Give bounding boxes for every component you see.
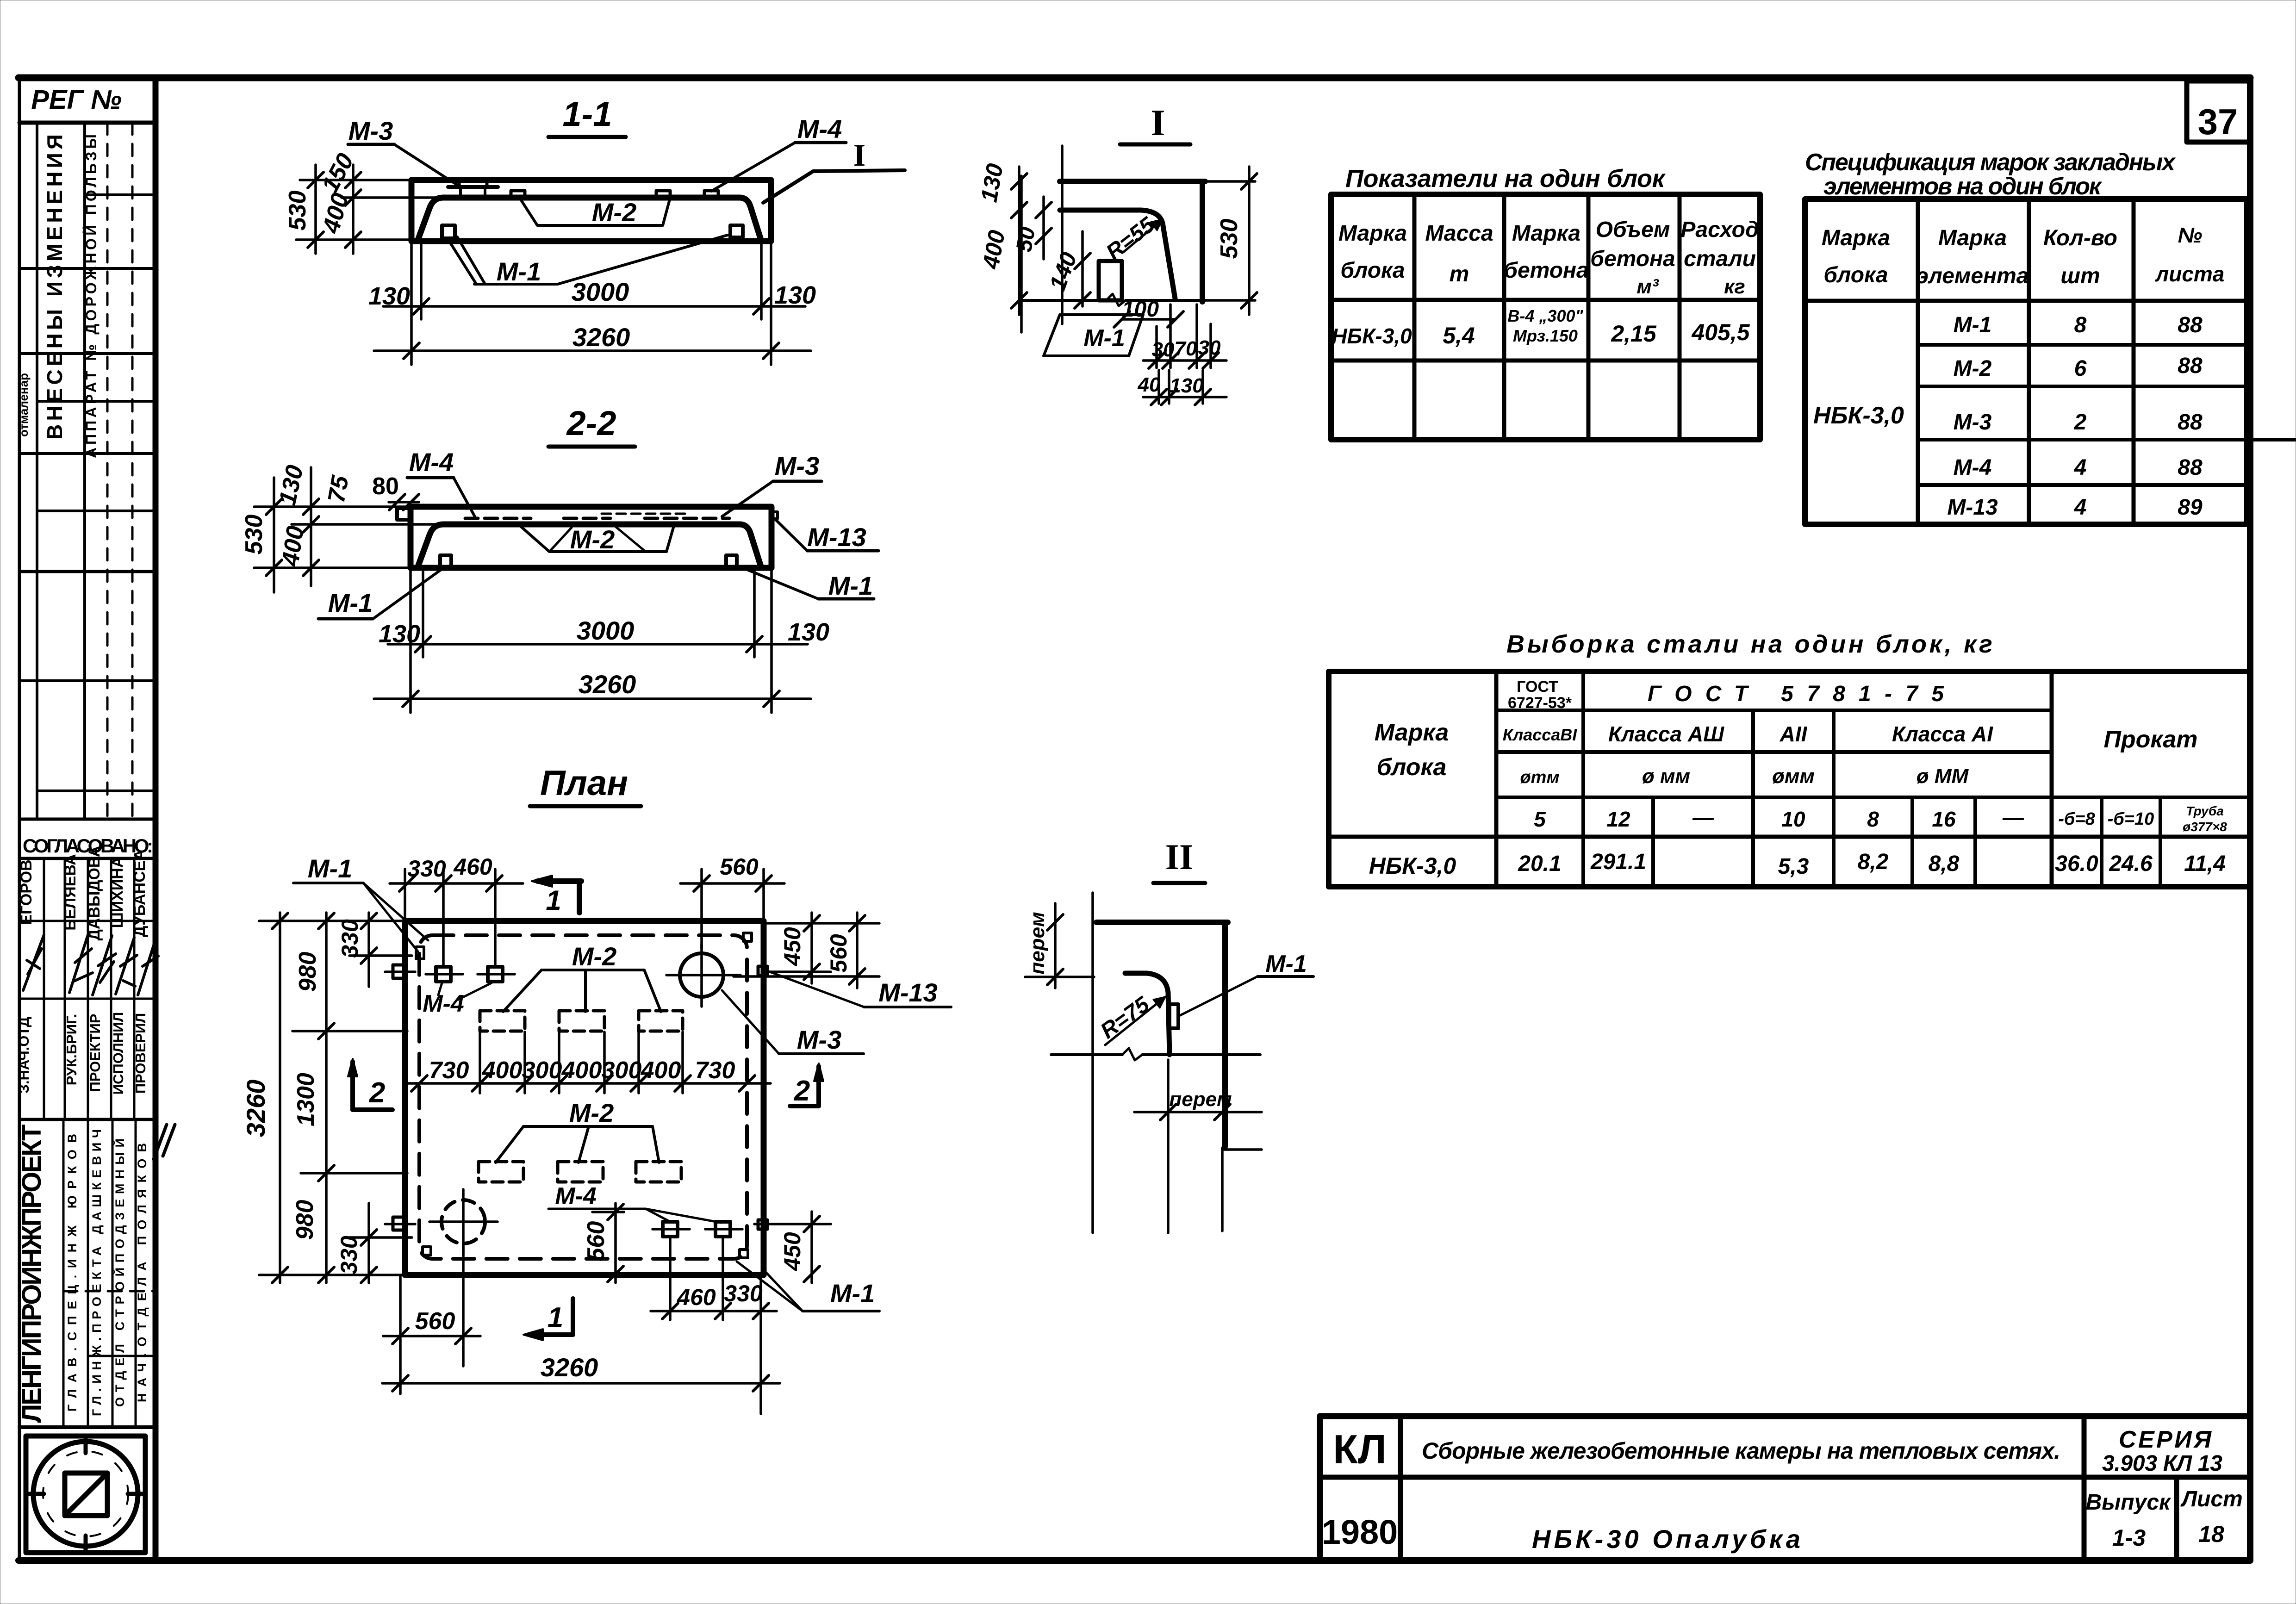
- svg-text:т: т: [1450, 262, 1469, 286]
- plate M-2 bottom row 2: [558, 1162, 603, 1182]
- corner hook M-1 bottom-left: [423, 1247, 431, 1255]
- svg-text:130: 130: [379, 620, 420, 648]
- svg-text:блока: блока: [1377, 754, 1447, 781]
- svg-text:ДАВЫДОВА: ДАВЫДОВА: [86, 846, 103, 941]
- svg-text:400: 400: [277, 524, 309, 568]
- svg-text:291.1: 291.1: [1590, 850, 1646, 874]
- anchor square M-4 top 1: [436, 967, 451, 982]
- svg-text:листа: листа: [2155, 262, 2225, 286]
- SECTION11: [284, 95, 905, 365]
- plate M-2 top row 3: [639, 1011, 683, 1031]
- opening circle top-right: [680, 953, 723, 997]
- cavity inner outline: [417, 524, 761, 568]
- interior dim row 730/400/300/400/300/400/730: [407, 1082, 771, 1085]
- svg-text:перем: перем: [1026, 912, 1049, 974]
- svg-text:НАЧ.ОТДЕЛА ПОЛЯКОВ: НАЧ.ОТДЕЛА ПОЛЯКОВ: [135, 1143, 149, 1402]
- svg-text:24.6: 24.6: [2109, 852, 2153, 876]
- svg-text:88: 88: [2178, 410, 2203, 435]
- svg-text:3260: 3260: [572, 323, 630, 352]
- svg-text:400: 400: [482, 1057, 523, 1084]
- title block outline: [1320, 1413, 2250, 1419]
- dims 30 70 30: [1155, 326, 1158, 368]
- svg-text:88: 88: [2178, 455, 2203, 480]
- plate parallelogram M-1: [1044, 315, 1143, 356]
- section mark 2 right: [816, 1066, 821, 1106]
- svg-text:М-1: М-1: [1265, 951, 1307, 977]
- anchor square M-4 bottom 1: [663, 1222, 678, 1237]
- svg-text:М-2: М-2: [592, 198, 636, 227]
- svg-text:элемента: элемента: [1916, 264, 2029, 288]
- svg-text:I: I: [853, 137, 865, 173]
- left extension lines: [300, 179, 411, 181]
- svg-text:5,3: 5,3: [1778, 854, 1809, 879]
- svg-text:М-3: М-3: [348, 116, 393, 145]
- changes table verticals: [36, 123, 38, 819]
- bottom dim 560: [399, 1275, 402, 1394]
- cavity inner outline: [417, 198, 761, 241]
- right outer edge: [1200, 181, 1205, 302]
- svg-text:М-2: М-2: [572, 942, 616, 971]
- svg-text:3260: 3260: [579, 670, 636, 699]
- left extension lines: [259, 920, 405, 922]
- changes table row lines: [85, 193, 156, 196]
- dim 530 vertical: [273, 478, 275, 592]
- svg-text:16: 16: [1932, 807, 1956, 831]
- svg-text:460: 460: [453, 854, 492, 880]
- svg-text:Марка: Марка: [1822, 226, 1890, 250]
- DETAIL1: [976, 103, 1257, 405]
- svg-text:НБК-3,0: НБК-3,0: [1369, 853, 1456, 879]
- right outer edge: [1222, 922, 1228, 1147]
- svg-text:2-2: 2-2: [566, 404, 616, 442]
- svg-text:М-3: М-3: [775, 451, 819, 480]
- svg-text:Марка: Марка: [1375, 719, 1449, 746]
- svg-text:100: 100: [1122, 297, 1159, 322]
- svg-text:Спецификация марок закладных: Спецификация марок закладных: [1805, 149, 2176, 176]
- svg-text:М-1: М-1: [1954, 313, 1992, 337]
- svg-text:88: 88: [2178, 313, 2203, 337]
- dim 3260: [409, 568, 412, 713]
- svg-text:Марка: Марка: [1512, 221, 1580, 246]
- svg-text:5,4: 5,4: [1443, 323, 1475, 348]
- svg-text:М-4: М-4: [797, 114, 842, 143]
- svg-text:м³: м³: [1636, 275, 1659, 298]
- svg-text:4: 4: [2074, 455, 2087, 480]
- svg-text:4: 4: [2074, 495, 2087, 520]
- svg-text:8,2: 8,2: [1858, 850, 1889, 874]
- svg-text:1-1: 1-1: [563, 95, 612, 133]
- inner corner with radius R75: [1125, 973, 1170, 1055]
- svg-text:М-1: М-1: [328, 588, 373, 617]
- svg-text:300: 300: [522, 1057, 562, 1084]
- embedded part M-3 assembly on top: [448, 185, 498, 189]
- right border: [2247, 78, 2253, 1560]
- svg-text:Масса: Масса: [1425, 221, 1493, 246]
- svg-text:II: II: [1165, 837, 1194, 877]
- svg-text:2,15: 2,15: [1611, 321, 1657, 347]
- corner hook M-1 top-right: [743, 933, 752, 941]
- svg-text:400: 400: [317, 190, 354, 236]
- svg-text:460: 460: [677, 1284, 716, 1310]
- svg-text:М-4: М-4: [1954, 455, 1992, 480]
- svg-text:2: 2: [2074, 410, 2087, 435]
- svg-text:бетона: бетона: [1590, 247, 1675, 271]
- svg-text:Марка: Марка: [1338, 221, 1407, 246]
- svg-text:М-3: М-3: [797, 1025, 841, 1054]
- svg-text:Труба: Труба: [2186, 804, 2224, 818]
- dim 330 bottom-left: [367, 1203, 370, 1283]
- svg-text:3.903 КЛ 13: 3.903 КЛ 13: [2102, 1451, 2222, 1476]
- svg-text:№: №: [2178, 223, 2203, 247]
- svg-text:элементов на один блок: элементов на один блок: [1823, 173, 2103, 200]
- svg-text:М-2: М-2: [569, 1098, 614, 1127]
- svg-text:Прокат: Прокат: [2103, 726, 2197, 753]
- svg-text:ГОСТ 5781-75: ГОСТ 5781-75: [1648, 682, 1944, 706]
- svg-text:ВНЕСЕНЫ ИЗМЕНЕНИЯ: ВНЕСЕНЫ ИЗМЕНЕНИЯ: [43, 134, 67, 440]
- TITLEBLOCK: [1320, 1416, 2250, 1560]
- section mark 1 bottom with arrow: [530, 1332, 573, 1337]
- svg-text:перем: перем: [1169, 1088, 1232, 1111]
- dim chain 980/1300/980: [325, 913, 328, 1283]
- logo connector ticks: [84, 1436, 88, 1453]
- svg-text:1300: 1300: [292, 1073, 319, 1126]
- svg-text:бетона: бетона: [1504, 258, 1588, 283]
- dim 400 left: [1018, 222, 1020, 315]
- dim 140 hook: [1081, 231, 1084, 306]
- extension lines from plates: [479, 1032, 481, 1093]
- svg-text:М-13: М-13: [807, 522, 866, 552]
- svg-text:Расход: Расход: [1680, 218, 1759, 242]
- svg-text:6: 6: [2074, 356, 2087, 381]
- svg-text:530: 530: [1216, 219, 1243, 259]
- svg-text:ШИХИНА: ШИХИНА: [109, 857, 126, 928]
- table Specifikacia grid: [1805, 199, 2247, 524]
- svg-text:Класса АІ: Класса АІ: [1892, 722, 1993, 746]
- svg-text:ø377×8: ø377×8: [2183, 820, 2227, 834]
- svg-text:øмм: øмм: [1772, 765, 1815, 788]
- slab outer rect: [411, 180, 771, 241]
- svg-text:5: 5: [1534, 807, 1546, 831]
- svg-text:8: 8: [2074, 313, 2087, 337]
- dim 400/150 vertical: [352, 165, 355, 254]
- logo emblem circle: [33, 1442, 138, 1546]
- svg-text:М-2: М-2: [570, 525, 615, 554]
- svg-text:1: 1: [548, 1302, 563, 1334]
- lifting hook M-1 right: [726, 555, 737, 568]
- dim 3000 with 130 ends: [420, 241, 423, 319]
- svg-text:I: I: [1151, 103, 1165, 143]
- leader callout M-2: [518, 524, 674, 552]
- dim 450 top-right: [810, 913, 813, 983]
- svg-text:530: 530: [284, 191, 311, 231]
- svg-text:З.НАЧ.ОТД: З.НАЧ.ОТД: [16, 1017, 32, 1093]
- svg-text:1: 1: [546, 885, 561, 916]
- svg-text:400: 400: [641, 1057, 681, 1084]
- svg-text:330: 330: [407, 856, 446, 882]
- dim 450 bottom-right: [754, 1223, 831, 1225]
- svg-text:730: 730: [429, 1057, 469, 1084]
- svg-text:шт: шт: [2060, 264, 2100, 288]
- TABLES: [1329, 149, 2296, 887]
- svg-text:1980: 1980: [1322, 1513, 1398, 1551]
- svg-text:кг: кг: [1724, 275, 1745, 298]
- construction verticals: [1061, 146, 1064, 324]
- dim 560 top-right: [856, 913, 859, 988]
- edge hook M-13 right: [758, 966, 767, 976]
- svg-text:ДУБАНСЕА: ДУБАНСЕА: [131, 849, 149, 937]
- svg-text:блока: блока: [1340, 258, 1405, 283]
- svg-text:Выпуск: Выпуск: [2086, 1490, 2172, 1515]
- svg-text:89: 89: [2178, 495, 2203, 520]
- svg-text:80: 80: [372, 473, 399, 500]
- svg-text:88: 88: [2178, 354, 2203, 378]
- svg-text:НБК-3,0: НБК-3,0: [1332, 324, 1412, 348]
- svg-text:30: 30: [1152, 338, 1175, 361]
- svg-text:ЛЕНГИПРОИНЖПРОЕКТ: ЛЕНГИПРОИНЖПРОЕКТ: [17, 1125, 47, 1423]
- svg-text:М-3: М-3: [1954, 410, 1992, 435]
- svg-text:М-4: М-4: [423, 990, 464, 1017]
- svg-text:3000: 3000: [577, 616, 635, 645]
- edge hook right bottom: [758, 1220, 767, 1229]
- svg-text:РУК.БРИГ.: РУК.БРИГ.: [63, 1014, 80, 1086]
- signatures scrawls: [23, 935, 44, 990]
- bottom break line: [1021, 299, 1106, 302]
- institute stamp columns: [62, 1119, 65, 1427]
- svg-text:70: 70: [1175, 337, 1197, 360]
- svg-text:3000: 3000: [572, 277, 629, 306]
- dim 560 bottom middle rotated: [592, 1211, 624, 1213]
- dim 50: [1042, 197, 1045, 259]
- logo box: [19, 1425, 156, 1429]
- svg-text:8: 8: [1867, 807, 1879, 831]
- svg-text:980: 980: [292, 1200, 318, 1240]
- dim 3260: [410, 241, 413, 365]
- svg-text:М-4: М-4: [409, 448, 454, 477]
- sidebar left edge: [18, 78, 21, 1560]
- svg-text:36.0: 36.0: [2055, 852, 2098, 876]
- svg-text:М-2: М-2: [1954, 356, 1992, 381]
- page number box 37: [2187, 81, 2250, 142]
- edge hook left: [393, 965, 404, 978]
- slab outer rect: [411, 507, 772, 568]
- svg-text:—: —: [2002, 805, 2024, 829]
- dim 3000 with 130 ends: [422, 568, 424, 657]
- svg-text:560: 560: [415, 1308, 455, 1335]
- svg-text:18: 18: [2198, 1521, 2224, 1547]
- svg-text:300: 300: [602, 1057, 642, 1084]
- corner tab M-4 outside left: [397, 508, 411, 520]
- svg-text:400: 400: [977, 228, 1010, 271]
- svg-text:ømм: ømм: [1520, 768, 1559, 787]
- svg-text:50: 50: [1012, 225, 1040, 254]
- right extension lines: [764, 922, 879, 925]
- svg-text:130: 130: [788, 618, 829, 646]
- cavity dashed rounded square: [419, 935, 747, 1259]
- svg-text:130: 130: [976, 162, 1008, 204]
- plate M-2 top row 1: [480, 1011, 525, 1031]
- logo emblem square with diagonal: [65, 1473, 107, 1516]
- svg-text:11,4: 11,4: [2184, 852, 2226, 876]
- section mark 2 left: [350, 1062, 355, 1110]
- embedded tabs M-4 on cavity top: [511, 191, 525, 198]
- svg-text:450: 450: [779, 1232, 805, 1271]
- svg-text:Выборка стали на один блок: Выборка стали на один блок, кг: [1506, 630, 1992, 658]
- leader M-1: [448, 237, 485, 283]
- svg-text:В-4 „300": В-4 „300": [1507, 306, 1583, 325]
- dim 530 vertical: [314, 165, 317, 254]
- inner corner with radius: [1060, 210, 1175, 298]
- dim 130/400 vertical: [310, 467, 312, 586]
- svg-text:130: 130: [368, 282, 410, 310]
- svg-text:ОТДЕЛ СТРОЙПОДЗЕМНЫЙ: ОТДЕЛ СТРОЙПОДЗЕМНЫЙ: [112, 1138, 127, 1407]
- svg-text:РЕГ №: РЕГ №: [31, 85, 122, 115]
- svg-text:Лист: Лист: [2180, 1487, 2243, 1511]
- svg-text:Сборные железобетонные камеры: Сборные железобетонные камеры на тепловы…: [1422, 1438, 2060, 1464]
- dim 130 left: [1018, 167, 1020, 222]
- signatures table verticals: [43, 858, 45, 1119]
- table Vyborka grid: [1329, 671, 2250, 887]
- svg-text:М-13: М-13: [1947, 495, 1998, 520]
- svg-text:-б=8: -б=8: [2058, 809, 2095, 829]
- svg-text:НБК-3,0: НБК-3,0: [1813, 402, 1904, 429]
- anchor hook M-1: [1099, 261, 1122, 300]
- svg-text:R=55: R=55: [1101, 212, 1159, 265]
- sidebar right edge: [153, 78, 159, 1560]
- opening circle bottom-left dashed: [442, 1200, 485, 1243]
- svg-text:75: 75: [323, 473, 354, 504]
- plate M-2 bottom row 1: [479, 1162, 523, 1182]
- svg-text:12: 12: [1606, 807, 1630, 831]
- svg-text:560: 560: [583, 1221, 610, 1262]
- anchor hook M-1: [1170, 1004, 1178, 1028]
- svg-text:ЕГОРОВ: ЕГОРОВ: [18, 859, 35, 925]
- DETAIL2: [1025, 837, 1313, 1233]
- svg-text:М-13: М-13: [878, 978, 938, 1007]
- svg-text:30: 30: [1198, 336, 1221, 359]
- construction verticals: [1091, 893, 1094, 1233]
- dim 330 top-left: [367, 913, 370, 987]
- svg-text:2: 2: [369, 1077, 385, 1109]
- svg-text:стали: стали: [1684, 247, 1756, 271]
- svg-text:М-1: М-1: [828, 571, 873, 600]
- lifting hook M-1 left: [442, 225, 455, 238]
- svg-text:НБК-30 Опалубка: НБК-30 Опалубка: [1532, 1524, 1800, 1554]
- svg-text:6727-53*: 6727-53*: [1508, 694, 1572, 712]
- top surface line: [1096, 920, 1228, 925]
- svg-text:ГОСТ: ГОСТ: [1517, 678, 1558, 696]
- SIDEBAR: [16, 85, 175, 1553]
- edge hook left bottom: [393, 1217, 404, 1230]
- table Pokazateli grid: [1331, 194, 1760, 440]
- svg-text:130: 130: [1170, 374, 1204, 397]
- svg-text:ИСПОЛНИЛ: ИСПОЛНИЛ: [110, 1012, 126, 1094]
- svg-text:130: 130: [774, 281, 816, 309]
- bottom-right dims 460/330: [669, 1237, 672, 1320]
- svg-text:СЕРИЯ: СЕРИЯ: [2119, 1426, 2212, 1453]
- lifting hook M-1 right: [730, 225, 743, 237]
- left extension lines: [254, 505, 411, 508]
- dims 40 130: [1157, 370, 1160, 404]
- svg-text:План: План: [540, 764, 628, 803]
- svg-text:КлассаВІ: КлассаВІ: [1503, 725, 1578, 744]
- svg-text:М-1: М-1: [308, 854, 352, 883]
- svg-text:Кол-во: Кол-во: [2043, 226, 2117, 250]
- svg-text:980: 980: [294, 952, 321, 992]
- corner hook M-1 top-left: [416, 947, 424, 959]
- svg-text:Объем: Объем: [1596, 218, 1670, 242]
- svg-text:ПРОВЕРИЛ: ПРОВЕРИЛ: [132, 1013, 149, 1094]
- svg-text:ГЛ.ИНЖ.ПРОЕКТА ДАШКЕВИЧ: ГЛ.ИНЖ.ПРОЕКТА ДАШКЕВИЧ: [90, 1129, 104, 1416]
- svg-text:400: 400: [561, 1057, 602, 1084]
- bottom border: [19, 1557, 2250, 1564]
- anchor square M-4 top 2: [488, 967, 503, 982]
- svg-text:Показатели на один блок: Показатели на один блок: [1345, 165, 1666, 193]
- embedded plates edge view dashed: [465, 517, 531, 520]
- svg-text:450: 450: [779, 927, 805, 966]
- svg-text:Марка: Марка: [1938, 226, 2007, 250]
- svg-text:КЛ: КЛ: [1333, 1426, 1386, 1472]
- break line: [1051, 1053, 1122, 1056]
- dim perem left: [1054, 903, 1057, 988]
- svg-text:R=75: R=75: [1096, 992, 1154, 1044]
- leader callout M-2: [521, 199, 670, 225]
- svg-text:8,8: 8,8: [1929, 852, 1960, 876]
- svg-text:140: 140: [1044, 249, 1082, 294]
- PLAN: [241, 764, 951, 1414]
- svg-text:М-1: М-1: [830, 1279, 875, 1308]
- svg-text:М-1: М-1: [497, 257, 541, 286]
- svg-text:405,5: 405,5: [1691, 319, 1750, 345]
- svg-text:2: 2: [794, 1075, 810, 1107]
- svg-text:130: 130: [274, 463, 309, 508]
- svg-text:530: 530: [241, 515, 268, 555]
- svg-text:20.1: 20.1: [1518, 852, 1561, 876]
- svg-text:М-1: М-1: [1083, 325, 1125, 352]
- svg-text:Класса АШ: Класса АШ: [1608, 722, 1724, 746]
- bottom dim 3260: [759, 1275, 762, 1414]
- svg-text:3260: 3260: [241, 1080, 270, 1138]
- svg-text:М-4: М-4: [555, 1183, 597, 1210]
- lifting hook M-1 left: [440, 555, 451, 568]
- stray pen marks: [154, 1125, 175, 1159]
- svg-text:3260: 3260: [541, 1353, 598, 1382]
- svg-text:ГЛАВ.СПЕЦ.ИНЖ ЮРКОВ: ГЛАВ.СПЕЦ.ИНЖ ЮРКОВ: [65, 1134, 79, 1411]
- svg-text:АII: АII: [1780, 722, 1808, 746]
- plate M-2 bottom row 3: [636, 1162, 681, 1182]
- svg-text:ø мм: ø мм: [1642, 765, 1690, 788]
- svg-text:БЕЛЯЕВА: БЕЛЯЕВА: [62, 854, 79, 931]
- svg-text:ПРОЕКТИР: ПРОЕКТИР: [87, 1014, 103, 1092]
- svg-text:330: 330: [724, 1281, 763, 1306]
- svg-text:10: 10: [1781, 807, 1805, 831]
- top dims: [404, 869, 406, 919]
- svg-text:37: 37: [2198, 101, 2238, 142]
- svg-text:560: 560: [826, 934, 852, 973]
- small plate marks: [602, 513, 690, 515]
- svg-text:1-3: 1-3: [2112, 1525, 2146, 1551]
- svg-text:40: 40: [1138, 373, 1161, 396]
- SECTION22: [241, 404, 878, 713]
- corner hook M-1 bottom-right: [740, 1250, 748, 1258]
- top border: [19, 75, 2250, 81]
- svg-text:560: 560: [720, 854, 759, 880]
- slab outer square: [405, 921, 764, 1275]
- plate M-2 top row 2: [559, 1011, 604, 1031]
- anchor square M-4 bottom 2: [716, 1222, 730, 1237]
- dim 530 right: [1205, 180, 1255, 183]
- top surface line: [1060, 179, 1205, 184]
- svg-text:-б=10: -б=10: [2108, 809, 2154, 829]
